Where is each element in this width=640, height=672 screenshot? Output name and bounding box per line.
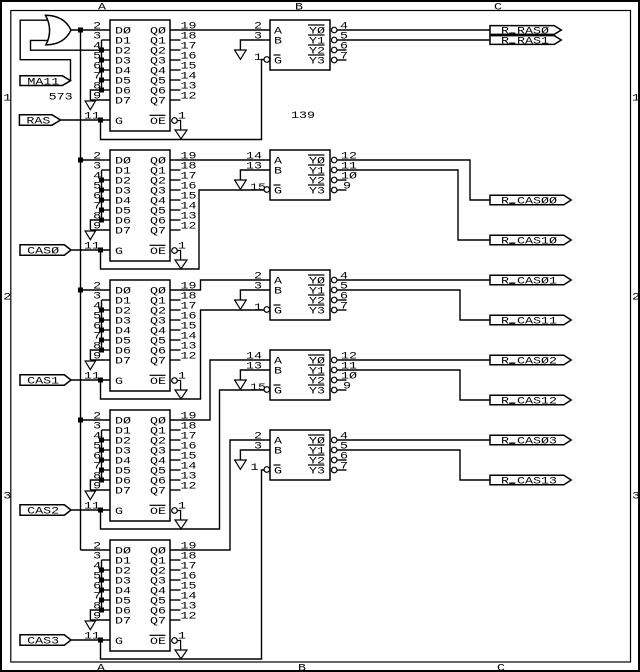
decoder U8 139 body — [270, 270, 330, 320]
latch U5 pin 1 number — [178, 632, 186, 643]
svg-text:11: 11 — [84, 372, 100, 383]
latch U2 unused Q stubs — [170, 170, 181, 230]
junctions latch U1 tie bus — [99, 48, 104, 93]
svg-text:7: 7 — [340, 462, 348, 473]
wire latch U3 Q0 to decoder A — [170, 280, 270, 290]
wire OR gate output to D0 bus — [71, 29, 110, 31]
latch U3 pin numbers left (2-9) — [93, 282, 101, 363]
svg-text:7: 7 — [340, 302, 348, 313]
wire decoder output to R_CAS00 — [337, 160, 490, 200]
latch U5 pin 11 number — [84, 632, 100, 643]
net CAS2 input flag — [20, 505, 71, 518]
ground latch U4 OE — [175, 520, 187, 529]
net R_CAS00 output flag — [490, 195, 571, 207]
latch U4 pin 1 number — [178, 502, 186, 513]
svg-text:MA11: MA11 — [27, 77, 59, 88]
svg-text:R: R — [501, 477, 509, 488]
decoder U10 139 body — [270, 430, 330, 480]
svg-text:CAS3: CAS3 — [27, 637, 59, 648]
svg-text:RAS: RAS — [26, 117, 50, 128]
svg-text:CAS2: CAS2 — [27, 507, 59, 518]
svg-text:B: B — [274, 447, 282, 458]
svg-text:OE: OE — [150, 507, 166, 518]
svg-text:OE: OE — [150, 377, 166, 388]
value label 573 — [49, 93, 73, 104]
latch U5 pin numbers right (19-12) — [181, 542, 197, 623]
wire decoder output to R_CAS02 — [337, 359, 490, 361]
svg-text:D7: D7 — [115, 617, 131, 628]
svg-text:C: C — [497, 663, 505, 672]
decoder U10 output bubbles — [331, 437, 337, 473]
wire bus taps to latch D0 pins — [81, 160, 111, 550]
latch U1 unused Q stubs — [170, 40, 181, 100]
wire decoder output to R_CAS13 — [337, 450, 490, 480]
decoder U6 139 body — [270, 20, 330, 70]
svg-text:B: B — [274, 367, 282, 378]
svg-text:Y3: Y3 — [309, 187, 325, 198]
ground decoder U8 B input — [235, 300, 247, 309]
svg-text:15: 15 — [250, 383, 266, 394]
net R_CAS11 output flag — [490, 315, 571, 327]
wire latch U1 OE to ground — [177, 121, 180, 131]
junction CAS3 / decoder enable tap — [98, 638, 103, 643]
wire decoder U10 B input tied low — [240, 450, 270, 460]
wire decoder U8 B input tied low — [240, 290, 270, 300]
latch U3 pin 1 number — [178, 372, 186, 383]
svg-text:D7: D7 — [115, 97, 131, 108]
wire latch U5 Q0 to decoder A — [170, 440, 270, 550]
latch U5 573 body — [110, 540, 170, 651]
junctions latch U4 tie bus — [99, 438, 104, 483]
latch U1 pin numbers right (19-12) — [181, 22, 197, 103]
ground decoder U6 B input — [235, 50, 247, 59]
wire decoder output to R_CAS11 — [337, 290, 490, 320]
ground latch U1 OE — [175, 130, 187, 139]
net CAS0 input flag — [20, 245, 71, 258]
junctions latch U3 tie bus — [99, 308, 104, 353]
latch U5 unused Q stubs — [170, 560, 181, 620]
wire CAS3 to latch G pin — [71, 639, 110, 641]
junction CAS2 / decoder enable tap — [98, 508, 103, 513]
net RAS input flag — [19, 115, 60, 128]
wire latch U1 Q0 to decoder A — [170, 29, 270, 31]
svg-text:1: 1 — [632, 94, 640, 105]
wire RAS to latch G pin — [61, 119, 111, 121]
svg-text:OE: OE — [150, 637, 166, 648]
wire latch U1 D1-D7 tie bus — [90, 40, 110, 100]
svg-text:15: 15 — [250, 183, 266, 194]
wire latch U4 Q0 to decoder A — [170, 360, 270, 420]
net R_CAS13 output flag — [490, 475, 571, 487]
ground latch U5 OE — [175, 650, 187, 659]
wire CAS3 to decoder U10 G-bar — [101, 470, 265, 659]
svg-text:12: 12 — [181, 222, 197, 233]
decoder U6 G-bar bubble — [264, 57, 270, 63]
wire latch U2 Q0 to decoder A — [170, 159, 270, 161]
ground decoder U10 B input — [235, 460, 247, 469]
wire decoder output to R_RAS1 — [337, 39, 490, 41]
svg-text:OE: OE — [150, 247, 166, 258]
junction CAS1 / decoder enable tap — [98, 378, 103, 383]
decoder U10 G-bar bubble — [264, 467, 270, 473]
svg-text:3: 3 — [632, 492, 640, 503]
wire latch U2 OE to ground — [177, 251, 180, 261]
net CAS1 input flag — [20, 375, 71, 388]
svg-text:12: 12 — [181, 482, 197, 493]
svg-text:G: G — [115, 117, 123, 128]
wire CAS0 to decoder U7 G-bar — [101, 190, 265, 269]
svg-text:2: 2 — [3, 293, 11, 304]
svg-text:Y3: Y3 — [309, 467, 325, 478]
svg-text:A: A — [98, 2, 106, 13]
wire CAS2 to latch G pin — [71, 509, 110, 511]
decoder U7 139 body — [270, 150, 330, 200]
decoder U9 G-bar bubble — [264, 387, 270, 393]
svg-text:CAS1Ø: CAS1Ø — [517, 236, 557, 248]
decoder U7 pin numbers right — [341, 152, 357, 193]
decoder U8 pin numbers left — [254, 272, 262, 315]
svg-text:G: G — [274, 387, 282, 398]
svg-text:CAS12: CAS12 — [517, 397, 557, 408]
svg-text:1: 1 — [251, 463, 259, 474]
wire decoder output to R_CAS10 — [337, 170, 490, 240]
svg-text:2: 2 — [632, 293, 640, 304]
latch U4 OE bubble — [172, 508, 178, 514]
svg-text:R: R — [501, 397, 509, 408]
net R_RAS0 output flag — [490, 26, 561, 38]
svg-text:R: R — [501, 37, 509, 48]
net R_RAS1 output flag — [490, 36, 561, 48]
latch U3 OE bubble — [172, 378, 178, 384]
svg-text:B: B — [295, 2, 303, 13]
net R_CAS12 output flag — [490, 395, 571, 407]
svg-text:OE: OE — [150, 117, 166, 128]
svg-text:CASØ2: CASØ2 — [517, 356, 557, 368]
wire CAS0 to latch G pin — [71, 249, 110, 251]
svg-text:B: B — [274, 37, 282, 48]
latch U2 pin 1 number — [178, 242, 186, 253]
svg-text:3: 3 — [254, 442, 262, 453]
wire latch U4 OE to ground — [177, 511, 180, 521]
decoder U10 unused Y2 Y3 stubs — [337, 460, 347, 470]
junction OR output / D0 bus — [78, 28, 83, 33]
net R_CAS02 output flag — [490, 355, 571, 367]
latch U1 pin 11 number — [84, 112, 100, 123]
latch U3 573 body — [110, 280, 170, 391]
svg-text:12: 12 — [181, 612, 197, 623]
wire CAS1 to decoder U8 G-bar — [101, 310, 265, 399]
wire CAS2 to decoder U9 G-bar — [101, 390, 265, 529]
ground latch U3 OE — [175, 390, 187, 399]
decoder U9 unused Y2 Y3 stubs — [337, 380, 347, 390]
svg-text:9: 9 — [343, 382, 351, 393]
svg-text:G: G — [115, 507, 123, 518]
net R_CAS03 output flag — [490, 435, 571, 447]
decoder U8 unused Y2 Y3 stubs — [337, 300, 347, 310]
svg-text:11: 11 — [84, 632, 100, 643]
latch U4 pin numbers left (2-9) — [93, 412, 101, 493]
svg-text:12: 12 — [181, 352, 197, 363]
svg-text:CASØØ: CASØØ — [517, 196, 557, 208]
decoder U10 pin numbers right — [340, 432, 348, 473]
svg-text:Y3: Y3 — [309, 307, 325, 318]
svg-text:1: 1 — [254, 303, 262, 314]
ground decoder U7 B input — [235, 180, 247, 189]
svg-text:13: 13 — [246, 162, 262, 173]
ground latch U2 D inputs — [85, 231, 95, 240]
svg-text:1: 1 — [3, 94, 11, 105]
svg-text:G: G — [115, 377, 123, 388]
svg-text:CASØ1: CASØ1 — [517, 276, 557, 288]
svg-text:R: R — [501, 277, 509, 288]
svg-text:R: R — [501, 357, 509, 368]
latch U1 pin 1 number — [178, 112, 186, 123]
svg-text:12: 12 — [181, 92, 197, 103]
svg-text:CAS13: CAS13 — [517, 477, 557, 488]
svg-text:139: 139 — [291, 111, 315, 122]
svg-text:CAS11: CAS11 — [517, 317, 557, 328]
latch U2 OE bubble — [172, 248, 178, 254]
decoder U9 pin numbers right — [341, 352, 357, 393]
svg-text:G: G — [274, 307, 282, 318]
latch U1 573 body — [110, 20, 170, 131]
latch U5 pin numbers left (2-9) — [93, 542, 101, 623]
latch U3 pin 11 number — [84, 372, 100, 383]
latch U5 OE bubble — [172, 638, 178, 644]
junction RAS / decoder enable tap — [98, 118, 103, 123]
decoder U8 output bubbles — [331, 277, 337, 313]
wire latch U5 OE to ground — [177, 641, 180, 651]
ground decoder U9 B input — [235, 380, 247, 389]
decoder U6 pin numbers right — [340, 22, 348, 63]
wire decoder output to R_CAS03 — [337, 439, 490, 441]
OR gate E1 — [46, 15, 72, 45]
decoder U9 139 body — [270, 350, 330, 400]
wire latch U4 D1-D7 tie bus — [90, 430, 110, 490]
svg-text:3: 3 — [254, 282, 262, 293]
svg-text:R: R — [501, 317, 509, 328]
wire decoder U7 B input tied low — [240, 170, 270, 180]
wire CAS1 to latch G pin — [71, 379, 110, 381]
svg-text:R: R — [501, 197, 509, 208]
decoder U6 unused Y2 Y3 stubs — [337, 50, 347, 60]
svg-text:B: B — [274, 167, 282, 178]
svg-text:Q7: Q7 — [150, 97, 166, 108]
latch U3 unused Q stubs — [170, 300, 181, 360]
latch U3 pin numbers right (19-12) — [181, 282, 197, 363]
ground latch U2 OE — [175, 260, 187, 269]
ground latch U3 D inputs — [85, 361, 95, 370]
latch U1 OE bubble — [172, 118, 178, 124]
svg-text:G: G — [115, 637, 123, 648]
wire decoder U6 B input tied low — [240, 40, 270, 50]
svg-text:B: B — [274, 287, 282, 298]
latch U2 pin 11 number — [84, 242, 100, 253]
svg-text:G: G — [274, 467, 282, 478]
svg-text:RAS1: RAS1 — [517, 37, 549, 48]
svg-text:G: G — [115, 247, 123, 258]
svg-text:D7: D7 — [115, 357, 131, 368]
decoder U8 G-bar bubble — [264, 307, 270, 313]
ground latch U1 D inputs — [85, 101, 95, 110]
latch U2 pin numbers right (19-12) — [181, 152, 197, 233]
svg-text:R: R — [501, 237, 509, 248]
decoder U9 output bubbles — [331, 357, 337, 393]
svg-text:D7: D7 — [115, 487, 131, 498]
wire latch U5 D1-D7 tie bus — [90, 560, 110, 620]
svg-text:3: 3 — [3, 492, 11, 503]
wire latch U3 D1-D7 tie bus — [90, 300, 110, 360]
latch U2 pin numbers left (2-9) — [93, 152, 101, 233]
wire decoder output to R_RAS0 — [337, 29, 490, 31]
svg-text:3: 3 — [254, 32, 262, 43]
svg-text:G: G — [274, 57, 282, 68]
svg-text:11: 11 — [84, 242, 100, 253]
svg-text:Y3: Y3 — [309, 57, 325, 68]
svg-text:CAS1: CAS1 — [27, 377, 59, 388]
junctions bus taps — [78, 158, 83, 423]
latch U4 pin numbers right (19-12) — [181, 412, 197, 493]
value label 139 — [291, 111, 315, 122]
decoder U6 output bubbles — [331, 27, 337, 63]
decoder U8 pin numbers right — [340, 272, 348, 313]
wire MA11 to OR gate input A — [20, 20, 70, 80]
svg-text:13: 13 — [246, 362, 262, 373]
svg-text:D7: D7 — [115, 227, 131, 238]
decoder U7 pin numbers left — [246, 152, 266, 195]
svg-text:9: 9 — [343, 182, 351, 193]
latch U4 pin 11 number — [84, 502, 100, 513]
wire vertical D0 distribution bus — [80, 30, 82, 550]
svg-text:Q7: Q7 — [150, 227, 166, 238]
junction CAS0 / decoder enable tap — [98, 248, 103, 253]
svg-text:R: R — [501, 437, 509, 448]
ground latch U5 D inputs — [85, 621, 95, 630]
svg-text:G: G — [274, 187, 282, 198]
ground latch U4 D inputs — [85, 491, 95, 500]
wire decoder U9 B input tied low — [240, 370, 270, 380]
decoder U10 pin numbers left — [251, 432, 263, 475]
svg-text:11: 11 — [84, 112, 100, 123]
latch U4 573 body — [110, 410, 170, 521]
svg-text:7: 7 — [340, 52, 348, 63]
svg-text:B: B — [298, 663, 306, 672]
svg-text:Q7: Q7 — [150, 617, 166, 628]
decoder U7 G-bar bubble — [264, 187, 270, 193]
svg-text:11: 11 — [84, 502, 100, 513]
wire latch U3 OE to ground — [177, 381, 180, 391]
decoder U9 pin numbers left — [246, 352, 266, 395]
wire OR gate input B (tied low) — [31, 40, 102, 50]
junctions latch U5 tie bus — [99, 568, 104, 613]
net R_CAS01 output flag — [490, 275, 571, 287]
decoder U7 unused Y2 Y3 stubs — [337, 180, 347, 190]
svg-text:Q7: Q7 — [150, 487, 166, 498]
wire latch U2 D1-D7 tie bus — [90, 170, 110, 230]
wire RAS to decoder U6 G-bar — [101, 60, 265, 140]
svg-text:Q7: Q7 — [150, 357, 166, 368]
svg-text:C: C — [494, 2, 502, 13]
svg-text:573: 573 — [49, 93, 73, 104]
junctions latch U2 tie bus — [99, 178, 104, 223]
net MA11 input flag — [20, 76, 71, 89]
latch U1 pin numbers left (2-9) — [93, 22, 101, 103]
svg-text:CASØ: CASØ — [27, 246, 59, 258]
net CAS3 input flag — [20, 635, 71, 648]
latch U2 573 body — [110, 150, 170, 261]
decoder U6 pin numbers left — [254, 22, 262, 65]
svg-text:A: A — [97, 663, 105, 672]
latch U4 unused Q stubs — [170, 430, 181, 490]
decoder U7 output bubbles — [331, 157, 337, 193]
wire decoder output to R_CAS01 — [337, 279, 490, 281]
wire decoder output to R_CAS12 — [337, 370, 490, 400]
svg-text:Y3: Y3 — [309, 387, 325, 398]
svg-text:CASØ3: CASØ3 — [517, 436, 557, 448]
net R_CAS10 output flag — [490, 235, 571, 247]
